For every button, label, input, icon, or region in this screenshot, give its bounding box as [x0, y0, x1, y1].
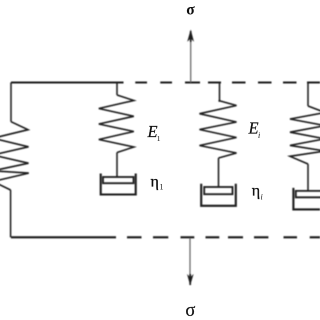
svg-text:η: η — [151, 174, 159, 191]
dashpot cylinder etan (cut at image edge) — [293, 188, 320, 210]
wire branch3 spring-to-dashpot rod — [307, 164, 309, 191]
label Ei — [248, 119, 261, 141]
wire left vertical lower — [10, 190, 12, 237]
arrowhead sigma top — [187, 30, 194, 43]
label etai — [252, 183, 263, 202]
spring En (right branch, cut at image edge) — [290, 106, 320, 164]
wire sigma bottom stem — [189, 238, 191, 280]
dashpot cylinder etai — [201, 184, 236, 206]
wire sigma top stem — [190, 33, 192, 83]
dashpot piston etan (cut at image edge) — [296, 191, 320, 197]
svg-text:i: i — [258, 131, 260, 140]
svg-text:σ: σ — [186, 1, 195, 18]
wire branch2 spring-to-dashpot rod — [218, 158, 220, 188]
arrowhead sigma bottom — [187, 274, 194, 286]
svg-text:E: E — [248, 119, 259, 138]
dashpot cylinder eta1 — [101, 174, 136, 195]
svg-text:i: i — [261, 193, 263, 202]
wire branch2 top — [219, 83, 220, 102]
top bar dashed segments — [135, 82, 320, 84]
wire branch1 spring-to-dashpot rod — [116, 153, 118, 178]
svg-text:σ: σ — [185, 301, 195, 320]
wire left vertical upper — [10, 83, 12, 122]
bottom bar dashed segments — [127, 236, 320, 238]
bottom bar solid segment — [11, 236, 116, 238]
label sigma top — [186, 1, 195, 18]
spring E1 — [99, 95, 134, 153]
label sigma bottom — [185, 301, 195, 320]
svg-text:η: η — [252, 183, 260, 200]
spring Ei — [200, 101, 237, 159]
wire branch1 top — [116, 83, 118, 96]
label E1 — [147, 122, 161, 143]
top bar solid segment — [11, 82, 124, 84]
label eta1 — [151, 174, 164, 192]
svg-text:1: 1 — [157, 134, 161, 143]
dashpot piston etai — [204, 187, 232, 194]
dashpot piston eta1 — [103, 177, 134, 183]
spring E0 (left branch, cut at image edge) — [0, 122, 29, 190]
wire branch3 top — [307, 83, 309, 107]
svg-text:1: 1 — [160, 183, 164, 192]
